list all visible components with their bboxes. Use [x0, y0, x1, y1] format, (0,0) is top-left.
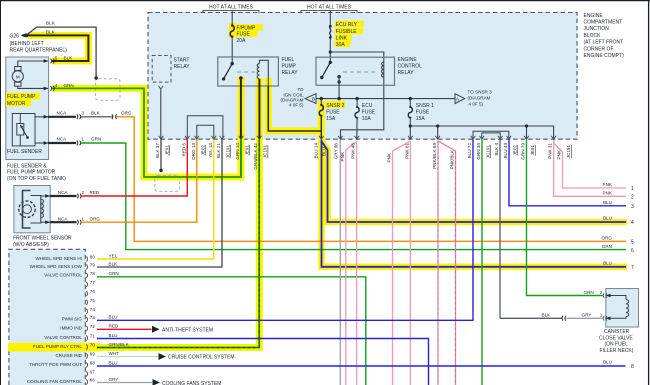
front wheel sensor symbol: [19, 191, 50, 229]
4 GRN pin label: [55, 83, 74, 88]
svg-text:ECU: ECU: [362, 103, 373, 109]
svg-text:ANTI-THEFT SYSTEM: ANTI-THEFT SYSTEM: [162, 327, 213, 333]
svg-text:BLU: BLU: [109, 333, 118, 338]
wire: RED sensor to RED 5 pin: [81, 140, 187, 197]
svg-text:LINK: LINK: [336, 36, 348, 42]
node: SNSR1 fuse output junction: [409, 124, 412, 127]
svg-text:NCA: NCA: [57, 111, 68, 116]
TO SNSR 3 label: [468, 89, 493, 106]
svg-text:GRY: GRY: [109, 377, 119, 382]
svg-text:ENGINE: ENGINE: [398, 57, 418, 63]
svg-text:JUNCTION: JUNCTION: [584, 26, 610, 32]
svg-text:BLK: BLK: [91, 111, 101, 116]
ECU RLY FUSIBLE LINK 30A label: [336, 22, 358, 48]
svg-text:PNK: PNK: [387, 152, 392, 162]
hot-at-all-times bracket 1: [203, 10, 259, 13]
svg-text:PWM SIG: PWM SIG: [62, 317, 83, 322]
wire: PNK/BLK pair from pin 69: [438, 141, 456, 385]
svg-text:(ON FUEL: (ON FUEL: [605, 342, 629, 348]
wire: PNK pair from ECU fuse pin: [346, 141, 357, 385]
5 BLK pin label: [55, 55, 73, 60]
svg-text:PNK: PNK: [603, 182, 613, 187]
svg-text:GRN: GRN: [602, 244, 612, 249]
ECM pin sockets: [86, 256, 87, 384]
highlight: fuel pump relay coil feed jog to SNSR2 fuse: [268, 78, 321, 131]
F/PUMP FUSE 20A label: [237, 25, 257, 44]
svg-text:1: 1: [631, 186, 634, 192]
svg-text:CRUISE CONTROL SYSTEM: CRUISE CONTROL SYSTEM: [168, 355, 235, 361]
svg-text:FUEL PUMP RLY CTRL: FUEL PUMP RLY CTRL: [33, 344, 83, 349]
svg-text:JE91: JE91: [245, 145, 250, 156]
SNSR 1 FUSE 15A label: [416, 103, 434, 122]
CANISTER CLOSE VALVE caption: [599, 329, 634, 354]
svg-text:TO SNSR 3: TO SNSR 3: [468, 89, 493, 94]
wire: engine control relay coil feed branch: [330, 52, 384, 139]
wire: BLK ground top run from G26: [26, 27, 98, 80]
svg-text:66: 66: [90, 378, 96, 383]
svg-text:BLK: BLK: [46, 21, 56, 26]
svg-text:BLU: BLU: [322, 147, 327, 156]
svg-text:VALVE CONTROL: VALVE CONTROL: [44, 273, 82, 278]
FUEL SENDER & FUEL PUMP MOTOR caption: [7, 164, 66, 182]
svg-text:FUEL SENDER &: FUEL SENDER &: [7, 164, 47, 170]
svg-text:80: 80: [90, 255, 96, 260]
engine control relay switch: [320, 61, 341, 84]
wire: GRN 78 valve control down to bottom: [97, 277, 366, 385]
highlight: SNSR 2 text: [326, 101, 346, 108]
wire: BLU 43 to terminal 3: [509, 140, 626, 206]
svg-text:15A: 15A: [416, 116, 426, 122]
svg-text:JE91: JE91: [165, 145, 170, 156]
inline connector BLK/GRY: [562, 316, 566, 321]
fuse SNSR 2 15A symbol (highlighted): [320, 104, 322, 106]
right terminal numbers: [631, 186, 634, 370]
svg-text:GRN: GRN: [109, 271, 119, 276]
svg-text:8: 8: [631, 364, 634, 370]
front wheel sensor component box: [14, 186, 50, 233]
svg-text:BLU: BLU: [603, 216, 612, 221]
svg-text:78: 78: [90, 271, 96, 276]
triangle A to snsr 3: [455, 94, 465, 104]
wire: BLK highlighted ground from fuel pump pin 5 to G26: [26, 35, 88, 61]
hot-at-all-times bracket 2: [301, 10, 357, 13]
wire: BLU 71 valve control down off bottom: [97, 339, 429, 385]
svg-text:3: 3: [631, 204, 634, 210]
wire: BLU 14 to terminal 7 (highlighted): [322, 140, 627, 267]
svg-text:77: 77: [90, 280, 96, 285]
fuel pump motor / fuel sender component box: [6, 57, 49, 160]
svg-text:JC191: JC191: [486, 145, 491, 159]
svg-text:HOT AT ALL TIMES: HOT AT ALL TIMES: [209, 4, 254, 10]
wire: front wheel sensor pin 2 stub: [50, 194, 81, 199]
wire: BLU ECM pin 73 horizontal handled above; RED 72 immo ind: [97, 328, 152, 330]
svg-text:HOT AT ALL TIMES: HOT AT ALL TIMES: [307, 4, 352, 10]
page border top: [0, 0, 650, 2]
svg-text:1: 1: [600, 313, 603, 318]
connector arcs at fuel pump pin 5: [51, 59, 55, 64]
ENGINE COMPARTMENT JUNCTION BLOCK label: [584, 13, 625, 59]
svg-text:2: 2: [631, 195, 634, 201]
svg-text:PNK/BLK: PNK/BLK: [450, 149, 455, 169]
svg-text:BLK: BLK: [64, 55, 74, 60]
junction block pin arrows: [159, 136, 556, 139]
svg-text:BLU: BLU: [603, 360, 612, 365]
svg-text:CANISTER: CANISTER: [604, 329, 630, 335]
arrow cooling fans: [153, 379, 161, 385]
svg-text:FUEL PUMP MOTOR: FUEL PUMP MOTOR: [7, 170, 56, 176]
node: bus junction dots: [320, 97, 323, 100]
svg-text:2: 2: [82, 190, 85, 195]
svg-text:THROTT POS PWM OUT: THROTT POS PWM OUT: [29, 362, 82, 367]
svg-text:COOLING FAN CONTROL: COOLING FAN CONTROL: [27, 379, 83, 384]
svg-text:F/PUMP: F/PUMP: [237, 25, 257, 31]
highlight: BLU wire to terminal 4: [321, 141, 627, 222]
ECM connector block (shaded, bottom left): [9, 249, 85, 385]
svg-text:4: 4: [631, 220, 634, 226]
fuel sender symbol: [12, 114, 48, 146]
wire: GRY 86 from relay coil to bottom: [339, 140, 341, 385]
wire: fusible link to engine control relay switch, junction to coil: [329, 38, 331, 63]
jumper loop BLU 72 to BLU 43: [473, 131, 509, 138]
jumper loop RED 5 to BLK 21: [187, 116, 223, 138]
svg-text:RELAY: RELAY: [398, 70, 415, 76]
svg-text:PNK: PNK: [603, 191, 613, 196]
ECM pin numbers: [90, 255, 96, 383]
svg-text:BLK 37: BLK 37: [155, 143, 160, 159]
svg-text:75: 75: [90, 298, 96, 303]
fuel pump relay U-box: [218, 57, 279, 86]
page border right: [648, 0, 650, 385]
arrow cruise control: [159, 353, 167, 360]
svg-text:RELAY: RELAY: [174, 64, 191, 70]
svg-text:7: 7: [631, 265, 634, 271]
right terminal wire labels: [602, 182, 613, 365]
SNSR 2 FUSE 15A label: [326, 103, 344, 122]
wire: ORG sensor to ORG 13 pin: [81, 140, 197, 223]
wire: PNK branch to terminal 1: [554, 143, 626, 188]
svg-text:FRONT WHEEL SENSOR: FRONT WHEEL SENSOR: [13, 235, 72, 241]
svg-text:FUSIBLE: FUSIBLE: [336, 29, 358, 35]
highlight: FUEL PUMP MOTOR text: [6, 93, 40, 100]
svg-text:GRN: GRN: [64, 83, 74, 88]
svg-text:4 0F 5): 4 0F 5): [469, 101, 484, 106]
svg-text:GRN 14: GRN 14: [235, 143, 240, 160]
svg-text:NCA: NCA: [58, 216, 69, 221]
arrow anti-theft: [152, 326, 160, 333]
svg-text:BLU: BLU: [603, 200, 612, 205]
sensor pin 1 labels: [58, 216, 101, 221]
svg-text:PNK: PNK: [340, 151, 345, 161]
fuel pump motor symbol M: [12, 61, 48, 88]
svg-text:3: 3: [82, 111, 85, 116]
wire: GRN 79 to valve pin 2: [527, 140, 604, 296]
wire: SNSR1 output rail to pins 69, GRN 79, PNK 31: [410, 126, 553, 139]
svg-text:IMMO IND: IMMO IND: [60, 326, 82, 331]
engine control relay coil bumps: [382, 62, 384, 77]
wire: BLK 4 to canister valve: [499, 140, 501, 319]
svg-text:(W/O ABS/ESP): (W/O ABS/ESP): [13, 242, 49, 248]
ghost dashed box below BLK 37: [155, 175, 180, 191]
sensor pin 2 labels: [58, 190, 100, 195]
page border left: [0, 0, 2, 385]
svg-text:CORNER OF: CORNER OF: [584, 46, 614, 52]
TO IGN COIL label: [281, 87, 304, 107]
svg-text:COMPARTMENT: COMPARTMENT: [584, 20, 623, 26]
svg-text:B: B: [312, 97, 315, 102]
wire: WHT 69 cruise ind: [97, 356, 158, 358]
svg-text:GRY 86: GRY 86: [334, 143, 339, 160]
highlight: ECU RLY FUSIBLE LINK 30A text: [335, 21, 364, 27]
fuel pump relay switch: [222, 62, 243, 81]
wire: BLU 68 throttle pos pwm out to terminal 8: [97, 365, 626, 367]
svg-text:74: 74: [90, 307, 96, 312]
ECM wire color labels: [109, 253, 130, 382]
svg-text:GRN/BLK: GRN/BLK: [109, 342, 130, 347]
svg-text:RED: RED: [90, 190, 100, 195]
svg-text:YEL 13: YEL 13: [208, 143, 213, 158]
rotated connector codes: [165, 145, 572, 159]
svg-text:SNSR 1: SNSR 1: [416, 103, 434, 109]
svg-text:2: 2: [600, 290, 603, 295]
svg-text:67: 67: [90, 370, 96, 375]
highlight: F/PUMP FUSE text: [235, 24, 262, 30]
svg-text:(BEHIND LEFT: (BEHIND LEFT: [10, 41, 44, 47]
svg-text:CONTROL: CONTROL: [398, 64, 423, 70]
svg-text:GRN 79: GRN 79: [521, 143, 526, 160]
svg-text:4: 4: [55, 83, 58, 88]
canister close valve coil symbol: [603, 293, 628, 320]
svg-text:G26: G26: [10, 34, 20, 40]
svg-text:BLK 4: BLK 4: [494, 143, 499, 156]
svg-text:4 0F 5): 4 0F 5): [289, 103, 304, 108]
svg-text:START: START: [174, 57, 190, 63]
svg-text:5: 5: [631, 240, 634, 246]
svg-text:15A: 15A: [326, 116, 336, 122]
triangle B to ign coil: [305, 94, 316, 104]
component pin arrowheads: [44, 59, 611, 320]
wire: fuel pump relay switch output (highlighted) to GRN 14 pin: [240, 78, 242, 139]
svg-text:FILLER NECK): FILLER NECK): [600, 348, 634, 354]
ECM left labels: [27, 256, 83, 384]
bus from triangle B to triangle A: [316, 98, 455, 100]
highlight: G26 ground path: [28, 35, 88, 61]
G26 label: [10, 34, 68, 54]
wire: GRY into valve pin 1: [567, 317, 604, 319]
fuse SNSR 1 15A symbol: [409, 106, 411, 108]
svg-text:NCA: NCA: [58, 190, 69, 195]
svg-text:ORG 13: ORG 13: [191, 143, 196, 160]
wire: battery feed to F/PUMP fuse: [231, 10, 233, 25]
wire: BLU to terminal 4 (highlighted): [321, 141, 626, 222]
fuel pump relay coil: [257, 60, 268, 86]
svg-text:FUEL PUMP: FUEL PUMP: [7, 94, 36, 100]
highlight: fuel pump relay coil to GRN/BLK 42 to ECM pin 70: [8, 78, 259, 348]
wire: BLK thin to inline connector: [80, 116, 112, 118]
wire: engine control relay switch output to bus: [338, 77, 340, 99]
svg-text:70: 70: [90, 343, 96, 348]
svg-text:WHEEL SPD SENS LOW: WHEEL SPD SENS LOW: [30, 264, 83, 269]
svg-text:PNK/BLK 69: PNK/BLK 69: [432, 143, 437, 169]
svg-text:76: 76: [90, 289, 96, 294]
wire: coil feed jog to SNSR2 fuse bottom (highlighted): [268, 86, 321, 131]
wire: GRN 14 below pin (highlighted): [240, 140, 242, 178]
svg-text:RED 5: RED 5: [181, 143, 186, 157]
wire: fuel sender pin 3 BLK stub: [48, 114, 81, 119]
wire: SNSR2 fuse string: [320, 99, 322, 105]
svg-text:GRN 34: GRN 34: [476, 143, 481, 160]
svg-text:SNSR 2: SNSR 2: [326, 103, 344, 109]
svg-text:ORG: ORG: [121, 111, 132, 116]
wire: battery feed to ECU RLY fusible link: [329, 10, 331, 26]
svg-text:JE91: JE91: [530, 145, 535, 156]
svg-text:(ON TOP OF FUEL TANK): (ON TOP OF FUEL TANK): [7, 176, 66, 182]
engine compartment junction block (shaded area): [148, 13, 577, 140]
svg-text:BLU 72: BLU 72: [467, 143, 472, 159]
svg-text:YEL: YEL: [109, 253, 118, 258]
svg-text:1: 1: [82, 216, 85, 221]
svg-text:CLOSE VALVE: CLOSE VALVE: [599, 335, 633, 341]
svg-text:BLK: BLK: [109, 261, 119, 266]
svg-text:BLU 14: BLU 14: [314, 143, 319, 159]
wire: PNK pair from SNSR1 fuse pin 61: [393, 141, 411, 385]
jumper loop ORG 13 to YEL 13: [197, 125, 214, 138]
rotated pin wire labels: [155, 143, 562, 170]
svg-text:BLU: BLU: [603, 261, 612, 266]
wire: BLU 72 to ECM pin 73 PWM SIG: [97, 140, 473, 321]
svg-text:WHT: WHT: [109, 351, 120, 356]
svg-text:20A: 20A: [237, 38, 247, 44]
sender pin 1 labels: [57, 137, 102, 142]
svg-text:BLK: BLK: [542, 313, 552, 318]
wire: ORG from sender to terminal 5: [116, 117, 626, 242]
svg-text:(AT LEFT FRONT: (AT LEFT FRONT: [584, 40, 624, 46]
svg-text:JC191: JC191: [566, 145, 571, 159]
svg-text:FUSE: FUSE: [416, 109, 430, 115]
svg-text:COOLING FANS SYSTEM: COOLING FANS SYSTEM: [162, 381, 221, 385]
svg-text:BLU: BLU: [109, 360, 118, 365]
svg-text:PNK: PNK: [557, 149, 562, 159]
svg-text:FUEL: FUEL: [282, 57, 295, 63]
svg-text:MOTOR: MOTOR: [7, 101, 26, 107]
wire: fuel pump relay coil to GRN/BLK 42 pin (highlighted): [258, 79, 260, 139]
START RELAY label: [174, 57, 191, 70]
wire: start relay to BLK 37 pin: [159, 86, 164, 139]
sender pin 3 labels: [57, 111, 132, 116]
svg-text:FUSE: FUSE: [326, 109, 340, 115]
wire: F/PUMP fuse to fuel pump relay switch: [231, 37, 233, 64]
svg-text:NCA: NCA: [57, 137, 68, 142]
ENGINE CONTROL RELAY label: [398, 57, 423, 76]
wire: GRN 34 down to bottom: [481, 140, 483, 385]
svg-text:ENGINE: ENGINE: [584, 13, 604, 19]
wire: fuel sender pin 1 GRN stub: [48, 141, 81, 146]
svg-text:BLK: BLK: [46, 29, 56, 34]
FRONT WHEEL SENSOR caption: [13, 235, 72, 247]
svg-text:(DIAGRAM: (DIAGRAM: [468, 95, 491, 100]
svg-text:68: 68: [90, 361, 96, 366]
svg-text:FUSE: FUSE: [362, 109, 376, 115]
jumper loop GRN 34 to BLK 4: [482, 133, 500, 138]
highlight: F/PUMP fuse symbol: [229, 23, 236, 38]
G26 ground node: [21, 33, 29, 37]
canister close valve component box: [606, 289, 639, 328]
inline connector on sender wire: [112, 114, 117, 119]
svg-text:5: 5: [55, 55, 58, 60]
svg-text:REAR QUARTERPANEL): REAR QUARTERPANEL): [10, 47, 68, 53]
svg-text:71: 71: [90, 334, 96, 339]
wire: GRN fuel pump feed pin 4: [51, 86, 242, 177]
engine control relay U-box: [316, 57, 395, 85]
start relay (dashed ghost): [152, 56, 171, 83]
ECU FUSE 10A label: [362, 103, 376, 122]
fuse F/PUMP 20A symbol: [230, 26, 234, 37]
canister valve pin labels: [542, 290, 603, 318]
svg-text:PNK 31: PNK 31: [548, 143, 553, 159]
svg-text:BLU 43: BLU 43: [503, 143, 508, 159]
svg-text:RELAY: RELAY: [282, 70, 299, 76]
svg-text:GRY: GRY: [582, 313, 592, 318]
highlight: SNSR2 fuse vertical: [318, 101, 325, 140]
svg-text:ORG: ORG: [90, 216, 101, 221]
FUEL PUMP RELAY label: [282, 57, 299, 76]
svg-text:ORG: ORG: [602, 236, 613, 241]
wire: BLK 37 below pin with node: [159, 140, 162, 173]
wire: ECU fuse string: [356, 99, 358, 107]
svg-text:FUEL SENDER: FUEL SENDER: [7, 149, 42, 155]
svg-text:PUMP: PUMP: [282, 64, 297, 70]
svg-text:6: 6: [631, 248, 634, 254]
highlight: GRN fuel pump feed path (pin4 to fuel pump relay): [52, 77, 241, 177]
wire: SNSR1 fuse string: [409, 99, 411, 107]
fuse ECU 10A symbol: [356, 106, 358, 108]
wire: GRN/BLK 42 to ECM pin 70 (highlighted): [97, 140, 259, 348]
wire: BLK 21 pin to ECM pin 79: [97, 140, 222, 268]
wire: YEL 13 pin to ECM pin 80: [97, 140, 214, 260]
svg-text:10A: 10A: [362, 116, 372, 122]
svg-text:73: 73: [90, 315, 96, 320]
svg-text:JE02: JE02: [200, 145, 205, 156]
svg-text:GRN: GRN: [91, 137, 101, 142]
svg-text:GRN/BLK 42: GRN/BLK 42: [253, 143, 258, 170]
ghost dashed box near fuel pump ground: [95, 79, 120, 101]
highlight: BLU 14 wire to terminal 7: [322, 139, 628, 267]
svg-text:ENGINE COMPT): ENGINE COMPT): [584, 53, 625, 59]
svg-text:RED: RED: [109, 324, 119, 329]
svg-text:WHEEL SPD SENS HI: WHEEL SPD SENS HI: [35, 256, 82, 261]
svg-text:72: 72: [90, 324, 96, 329]
svg-text:ECU RLY: ECU RLY: [336, 22, 358, 28]
svg-text:PNK 48: PNK 48: [351, 143, 356, 159]
svg-text:FUSE: FUSE: [237, 32, 251, 38]
svg-text:VALVE CONTROL: VALVE CONTROL: [44, 335, 82, 340]
wire: PNK 31 to terminal 2: [554, 140, 626, 197]
FUEL PUMP MOTOR label: [7, 94, 36, 107]
wire: front wheel sensor pin 1 stub: [50, 220, 81, 225]
svg-text:JE02: JE02: [513, 145, 518, 156]
svg-text:BLU: BLU: [109, 315, 118, 320]
svg-text:30A: 30A: [336, 42, 346, 48]
fusible link ECU RLY 30A symbol: [329, 25, 332, 28]
svg-text:GRN: GRN: [584, 290, 594, 295]
svg-text:JC191: JC191: [263, 145, 268, 159]
wire: GRN from sender to terminal 6: [80, 143, 626, 250]
svg-text:BLK 21: BLK 21: [216, 143, 221, 159]
svg-text:BLOCK: BLOCK: [584, 33, 602, 39]
svg-text:69: 69: [90, 352, 96, 357]
svg-text:M: M: [16, 74, 20, 79]
svg-text:PNK 61: PNK 61: [404, 143, 409, 159]
svg-text:1: 1: [82, 137, 85, 142]
